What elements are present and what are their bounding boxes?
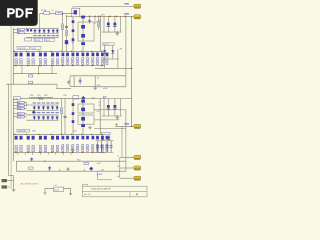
labels bottom ladder row: [17, 129, 29, 132]
component box C col 3: [72, 38, 75, 41]
diode D17: [33, 116, 36, 120]
wire D bank drop A: [104, 45, 106, 59]
battery BT1 box: [53, 187, 63, 191]
connector J9 (faston): [134, 176, 141, 180]
label J3 net: [124, 123, 129, 124]
transistor Q2a: [81, 16, 85, 19]
transistor Q30: [81, 108, 85, 112]
diode D3: [43, 29, 46, 33]
junction dot right bus: [131, 68, 132, 69]
wire zobel left vertical: [73, 76, 75, 87]
output transistor pair Q38: [27, 136, 30, 140]
component box C2 col 1: [72, 103, 75, 106]
wire VAS vertical B: [66, 16, 68, 51]
ground driver 2: [88, 126, 92, 129]
svg-text:a3: a3: [117, 176, 119, 178]
svg-text:C30: C30: [63, 95, 66, 97]
capacitor C24: [31, 158, 33, 162]
PDF badge: [0, 0, 38, 26]
svg-text:Doc 1.0: Doc 1.0: [84, 194, 91, 196]
output transistor pair Q36: [15, 136, 18, 140]
connector J10 stub: [2, 179, 7, 182]
schematic page background: [0, 0, 149, 198]
wire mid line A: [14, 73, 58, 75]
diode D26 mark: [101, 137, 104, 140]
wire diode bus2 top: [26, 104, 58, 106]
wire col C2: [72, 99, 74, 135]
capacitor C6 on vertical B: [65, 25, 68, 27]
connector J6 pin5 label: [17, 116, 24, 118]
output transistor pair Q42: [51, 136, 54, 140]
wire J6 pin3 to bus: [13, 108, 17, 110]
diode D21: [51, 116, 54, 120]
wire diode bus2 mid: [26, 109, 58, 111]
connector J3 (output faston): [134, 124, 141, 128]
capacitor C29 polarized mark: [114, 105, 117, 108]
inductor L1 on supply rail: [56, 11, 63, 14]
connector J6 pin4 label: [17, 113, 24, 115]
capacitor C25: [49, 166, 51, 171]
wire drop2 to caps B: [107, 99, 109, 116]
wire V+ rail top (to output connector J1): [75, 6, 134, 8]
output transistor pair Q13/Q14: [15, 53, 18, 57]
resistor R15 small: [98, 22, 100, 27]
diode D4: [47, 29, 50, 33]
junction dot VAS: [62, 13, 63, 14]
svg-text:Earth: Earth: [54, 189, 59, 192]
wire zobel bottom: [70, 85, 95, 87]
svg-text:+42V: +42V: [100, 14, 106, 16]
output transistor pair Q17/Q18: [39, 53, 42, 57]
capacitor C13 zobel: [79, 78, 81, 85]
ground right of bottom rail: [71, 149, 75, 152]
transistor Q32: [81, 124, 85, 127]
diode D18: [38, 116, 41, 120]
output transistor pair Q19/Q20: [51, 53, 54, 57]
resistor R8 on vertical A: [62, 24, 64, 30]
wire input pin1 to bus: [13, 28, 17, 30]
driver stage box outline: [78, 22, 94, 41]
output transistor pair Q48: [82, 136, 85, 140]
wire supply rail right segment: [80, 15, 134, 17]
labels above diode row 2: [33, 102, 36, 103]
wire to connector J8: [120, 167, 134, 169]
ground bottom mid (flipped): [66, 168, 70, 171]
junction dots bottom ladder bottom: [15, 152, 16, 153]
emitter resistor pair R30/R31: [15, 59, 17, 65]
output transistor pair Q25: [82, 53, 85, 57]
resistor R48 on drop: [61, 108, 63, 114]
diode D16: [56, 106, 59, 110]
wire drop to caps B: [107, 16, 109, 32]
wire terminal up: [44, 188, 46, 192]
label boxes R/C row: [25, 38, 32, 41]
wire J6 pin2 to bus: [13, 105, 17, 107]
wire VAS vertical C: [72, 17, 74, 51]
svg-text:GND: GND: [18, 109, 23, 111]
tick on line B2: [83, 169, 85, 171]
title block mid line: [82, 190, 147, 192]
emitter resistor pair R66: [52, 145, 54, 151]
wire J6 pin4 to bus: [13, 113, 17, 115]
wire driver right vertical: [100, 16, 102, 51]
wire diode bus2 bottom: [26, 119, 58, 121]
output transistor pair Q44: [62, 136, 65, 140]
diode D1: [34, 29, 37, 33]
connector J6 pin2 label: [17, 104, 24, 106]
wire to connector J7: [120, 156, 134, 158]
label J2 net: [124, 13, 129, 14]
terminal circle: [44, 192, 46, 194]
emitter resistor pair R34/R35: [39, 59, 41, 65]
diode D12: [38, 106, 41, 110]
svg-text:Q33 Q34: Q33 Q34: [18, 131, 26, 133]
resistor R16: [28, 75, 32, 77]
emitter resistor pair R42: [72, 58, 74, 65]
wire D bank drop B: [112, 45, 114, 59]
connector J6 pin1 label: [17, 101, 24, 103]
wire to connector J9: [120, 177, 134, 179]
ground for decoupling bank: [116, 32, 120, 35]
capacitor diamond mark: [81, 96, 85, 100]
emitter resistor pair R78: [101, 145, 103, 152]
wire left NFB bus bottom: [9, 175, 14, 177]
svg-text:E1: E1: [55, 185, 57, 187]
svg-text:+HI-LIM BD DSPL3: +HI-LIM BD DSPL3: [20, 183, 40, 185]
resistor R9 on vertical B: [66, 30, 68, 36]
wire VAS link: [67, 16, 74, 17]
wire caps bank top bus: [96, 140, 114, 142]
svg-text:C9: C9: [98, 105, 100, 107]
junction dot connector stub: [131, 126, 132, 127]
wire drop to caps A: [103, 16, 105, 32]
svg-text:C40: C40: [101, 169, 104, 171]
wire driver column vertical: [82, 16, 84, 51]
diode D2: [38, 29, 41, 33]
diode D5: [52, 29, 55, 33]
wire speaker line C: [95, 86, 126, 88]
wire vertical line AB left: [15, 161, 17, 171]
wire bottom channel left bus: [13, 99, 15, 162]
wire driver column vertical 2: [82, 99, 84, 135]
output transistor pair Q15/Q16: [27, 53, 30, 57]
labels bottom channel top row: [14, 97, 20, 100]
wire drop R14: [94, 16, 96, 24]
wire drop2 to caps C: [114, 99, 116, 116]
diode D19: [42, 116, 45, 120]
wire stub bottom right: [98, 179, 112, 181]
ground arrow right: [70, 188, 72, 193]
capacitor C22: [106, 141, 108, 153]
wire bottom channel top line: [20, 98, 78, 100]
label J1 net: [124, 3, 129, 4]
transistor Q8: [65, 40, 68, 44]
svg-text:Q35: Q35: [32, 131, 36, 133]
driver stage box outline 2b: [78, 115, 94, 124]
wire D bank down A: [104, 59, 106, 68]
ground zobel right: [93, 87, 97, 90]
junction cross red: [115, 123, 118, 126]
wire diode bus2 row2top: [26, 114, 58, 116]
component box C2 col 2: [72, 112, 75, 115]
svg-text:DUAL AUDIO AMPLIF: DUAL AUDIO AMPLIF: [91, 188, 111, 191]
svg-text:R52: R52: [97, 111, 100, 113]
wire speaker line B: [95, 75, 126, 77]
wire bottom line A: [16, 160, 126, 162]
svg-text:a-OP: a-OP: [97, 163, 102, 165]
ground for decoupling bank 2: [116, 116, 120, 119]
svg-text:Q12: Q12: [32, 48, 36, 50]
resistor R50 under line: [84, 163, 89, 165]
connector J2 (V- faston): [134, 15, 141, 19]
wire bottom ladder bottom rail: [13, 151, 105, 153]
wire D bank drop C: [117, 49, 119, 59]
title block outer: [82, 186, 147, 197]
stubs below bottom rail: [17, 152, 19, 154]
wire right loop vertical: [125, 16, 127, 87]
wire driver right vertical 2: [99, 99, 101, 135]
output transistor pair Q52: [101, 136, 104, 140]
title block top-left cell: [81, 184, 83, 186]
svg-text:+42V: +42V: [102, 97, 108, 99]
wire J10 to ground: [7, 180, 14, 182]
capacitor C3 input: [30, 29, 32, 31]
wire bottom line B: [16, 170, 126, 172]
capacitor C2 input: [27, 29, 29, 31]
emitter resistor pair R64: [39, 145, 41, 151]
transistor Q29: [81, 100, 85, 103]
wire diode bus bottom: [26, 33, 58, 35]
label box R4 C5: [44, 38, 54, 41]
emitter resistor pair R60: [15, 145, 17, 151]
wire link rail to mid A: [21, 66, 23, 74]
wire drop rail1 to input: [39, 14, 41, 29]
wire nested loop h1: [94, 109, 126, 111]
label box R3 C4: [34, 38, 43, 41]
wire J6 pin1 to bus: [13, 102, 17, 104]
wire ladder top rail: [13, 50, 105, 52]
component box C2 col 3: [72, 120, 75, 123]
wire stub down right: [97, 171, 99, 180]
wire drop R13: [89, 16, 91, 24]
junction dot caps bus 2: [117, 115, 118, 116]
wire D bank bus: [102, 58, 119, 60]
resistor R30 zigzag: [38, 97, 44, 100]
driver stage box outline 2a: [78, 104, 94, 113]
title block col line 2: [129, 191, 131, 197]
connector J8 (faston): [134, 166, 141, 170]
wire caps bank bottom bus: [96, 151, 114, 153]
svg-text:R4 C5: R4 C5: [45, 40, 50, 42]
emitter resistor pair R76: [92, 145, 94, 152]
wire zobel ground stub: [69, 80, 71, 82]
wire left NFB bus vertical: [8, 84, 10, 175]
diode D14: [47, 106, 50, 110]
svg-text:D6 D7: D6 D7: [104, 44, 109, 46]
wire drop to caps D: [120, 16, 122, 32]
emitter resistor pair R62: [27, 145, 29, 151]
page frame left border: [10, 0, 12, 189]
wire link rail to mid B: [38, 66, 40, 74]
resistor R80: [29, 167, 33, 169]
svg-text:Q8: Q8: [72, 42, 75, 44]
emitter resistor pair R72: [72, 145, 74, 152]
labels below diode row: [33, 35, 36, 36]
connector J11 stub: [2, 186, 7, 189]
transistor Q4: [81, 34, 85, 38]
wire D bank 2 drop B: [108, 134, 110, 141]
transistor Q3: [81, 25, 85, 29]
transistor Q5: [81, 42, 85, 45]
diode D27 mark: [108, 137, 111, 140]
svg-text:a1: a1: [117, 155, 119, 157]
wire left NFB to ground: [13, 176, 15, 181]
tick on line B1: [59, 169, 61, 171]
svg-text:a2: a2: [117, 166, 119, 168]
component box C col 1: [72, 20, 75, 23]
emitter resistor pair R32/R33: [27, 59, 29, 65]
wire decoupling bus bottom 2: [102, 115, 122, 117]
wire drop R15: [98, 16, 100, 30]
capacitor C8 polarized mark: [107, 23, 110, 26]
wire drop to caps C: [114, 16, 116, 32]
diode D11: [33, 106, 36, 110]
capacitor diamond bottom: [89, 167, 93, 171]
wire drop2 to caps D: [120, 99, 122, 116]
wire long right vertical bus: [131, 16, 133, 126]
svg-text:R3 C4: R3 C4: [35, 40, 40, 42]
wire VAS vertical A: [62, 14, 64, 52]
wire speaker line A: [95, 67, 132, 69]
svg-text:Q10 Q11: Q10 Q11: [18, 48, 26, 50]
output transistor pair Q29: [101, 53, 104, 57]
junction dots on supply rail: [89, 16, 90, 17]
component box C col 2: [72, 29, 75, 32]
wire nested loop h3: [94, 128, 126, 130]
svg-text:Q30: Q30: [73, 130, 76, 132]
wire nested loop h2: [94, 119, 120, 121]
emitter resistor pair R44: [82, 58, 84, 65]
wire bottom ladder top rail: [13, 133, 105, 135]
capacitor C23: [110, 141, 112, 153]
wire ladder bottom rail: [13, 65, 105, 67]
capacitor diamond input2: [32, 110, 36, 114]
wire diode bus top: [26, 27, 58, 29]
resistor R17: [28, 81, 32, 83]
emitter resistor pair R36/R37: [52, 59, 54, 65]
diode D22: [56, 116, 59, 120]
wire bottom channel top line right: [79, 98, 132, 100]
ground zobel: [67, 81, 71, 84]
fuse F1 on supply rail: [44, 11, 50, 14]
wire connector stub: [115, 125, 134, 127]
connector J7 (faston): [134, 155, 141, 159]
output transistor pair Q23: [72, 53, 75, 57]
wire J6 pin5 to bus: [13, 116, 17, 118]
capacitor C28 polarized mark: [107, 105, 110, 108]
svg-text:L2: L2: [52, 10, 54, 12]
wire NFB short segment: [56, 87, 71, 89]
diode D6 mark: [103, 50, 106, 53]
pass transistor Q1 block: [72, 8, 80, 17]
junction dots ladder top: [14, 51, 15, 52]
emitter resistor pair R46: [92, 58, 94, 65]
emitter resistor pair R74: [82, 145, 84, 152]
wire left drop A2: [61, 99, 63, 135]
connector J1 (V+ faston): [134, 4, 141, 8]
emitter resistor pair R40: [62, 58, 64, 65]
connector J6 pin3 label: [17, 107, 24, 109]
junction dot line A: [44, 161, 45, 162]
connector J5 input pin 1 label: [17, 28, 24, 30]
junction dots ladder bottom: [15, 65, 16, 66]
svg-text:R22: R22: [30, 95, 33, 97]
output transistor pair Q40: [39, 136, 42, 140]
junction dot mid: [38, 73, 39, 74]
diode D6: [56, 29, 59, 33]
diode D13: [42, 106, 45, 110]
wire vertical connector bus: [119, 157, 121, 178]
wire zobel right vertical: [94, 76, 96, 87]
svg-text:C16: C16: [14, 98, 17, 100]
output transistor pair Q50: [92, 136, 95, 140]
labels D bank row: [103, 43, 114, 46]
junction dots bottom ladder top: [14, 134, 15, 135]
output transistor pair Q46: [72, 136, 75, 140]
wire left drop B2: [64, 99, 66, 135]
emitter resistor pair R70: [62, 145, 64, 152]
capacitor C32 on drop: [64, 115, 67, 117]
svg-text:R9: R9: [120, 49, 122, 51]
svg-text:R50: R50: [77, 159, 80, 161]
wire mid line B: [6, 83, 57, 85]
wire D bank 2 drop A: [102, 134, 104, 141]
wire J11 stub: [7, 186, 10, 188]
wire left channel bus: [13, 28, 15, 84]
svg-text:IN-: IN-: [18, 33, 21, 35]
wire decoupling bus bottom: [102, 31, 122, 33]
diode D15: [51, 106, 54, 110]
junction dot caps bus: [117, 31, 118, 32]
ground bottom left: [12, 189, 16, 192]
labels output transistor row: [17, 46, 29, 49]
capacitor C20: [97, 141, 99, 153]
output transistor pair Q27: [92, 53, 95, 57]
wire right loop vertical bottom: [125, 110, 127, 171]
transistor Q31: [81, 117, 85, 121]
output transistor pair Q21: [62, 53, 65, 57]
wire drop from stub: [121, 126, 123, 157]
svg-text:R23: R23: [44, 95, 47, 97]
wire zobel top: [70, 75, 95, 77]
wire drop2 to caps A: [103, 99, 105, 116]
capacitor C11 small: [88, 19, 91, 21]
connector J5 input pin 2 label: [17, 31, 24, 33]
wire input pin2 to bus: [13, 32, 17, 34]
wire link rail to mid C: [51, 66, 53, 74]
emitter resistor pair R48: [101, 58, 103, 65]
capacitor C9 polarized mark: [114, 23, 117, 26]
labels D bank row 2: [102, 132, 111, 134]
capacitor C21: [101, 141, 103, 153]
diode D7 mark: [111, 50, 114, 53]
labels between diode rows: [33, 112, 36, 113]
wire supply rail left segment: [40, 13, 76, 15]
component box on line: [73, 96, 79, 99]
wire D bank down B: [117, 59, 119, 68]
diode D20: [47, 116, 50, 120]
